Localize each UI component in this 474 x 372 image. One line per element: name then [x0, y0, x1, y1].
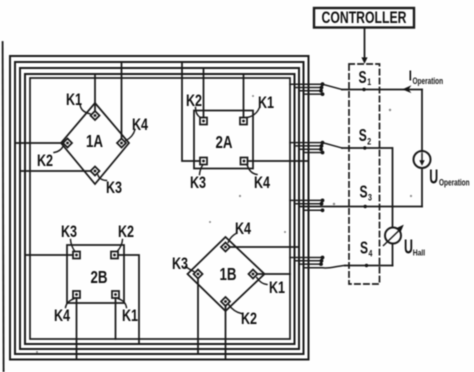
- coil turn W4: [25, 74, 295, 344]
- svg-text:CONTROLLER: CONTROLLER: [322, 9, 407, 27]
- wire 2A K4 to right coil: [248, 160, 309, 162]
- sensor 1B terminal K3: [194, 270, 203, 279]
- I_Operation arrowhead: [402, 85, 411, 93]
- svg-text:U: U: [429, 165, 438, 188]
- sensor 2B terminal K1: [112, 291, 119, 298]
- wire 1B K3 to bottom coil: [197, 279, 199, 355]
- svg-text:K4: K4: [235, 219, 252, 238]
- wire S2 row down to voltmeter U_Hall: [392, 148, 394, 228]
- voltmeter U_Hall: [385, 228, 401, 244]
- switch S3 contact dots: [320, 199, 325, 213]
- svg-text:4: 4: [369, 249, 373, 259]
- wire 1A K1 to top coil: [94, 74, 96, 111]
- sensor 1A terminal K1: [91, 111, 100, 120]
- svg-text:K3: K3: [172, 254, 188, 273]
- sensor 2B terminal K3: [73, 252, 80, 259]
- wire 2B K1 to bottom coil: [115, 298, 117, 339]
- wire 2A K3 left then up to top coil: [182, 62, 200, 161]
- switch S2 contact taps: [290, 142, 322, 144]
- label leader 2A K3: [200, 165, 203, 174]
- sensor 2B body: [67, 245, 124, 303]
- svg-text:K3: K3: [106, 178, 122, 197]
- switch S4 arm: [323, 266, 346, 269]
- coil turn W1 (outer rectangle): [10, 56, 309, 360]
- wire 1A K4 to top coil: [121, 62, 123, 139]
- wire S3 row to right node: [300, 206, 423, 208]
- svg-text:2: 2: [367, 137, 371, 147]
- svg-text:K1: K1: [122, 306, 138, 325]
- sensor 2A terminal K2: [200, 118, 207, 125]
- label leader 2A K1: [247, 109, 259, 118]
- label leader 1B K1: [257, 278, 267, 285]
- switch bank dashed enclosure: [349, 64, 380, 284]
- label leader 1A K4: [126, 130, 135, 141]
- svg-text:Operation: Operation: [413, 76, 444, 86]
- scan specks: [36, 95, 412, 353]
- wire 2B K2 right then down to bottom coil: [118, 255, 139, 344]
- label leader 1B K4: [228, 234, 236, 243]
- label leader 2B K3: [71, 240, 75, 252]
- sensor 1A terminal K4: [117, 139, 126, 148]
- svg-text:K2: K2: [118, 222, 134, 241]
- sensor 1A terminal K3: [91, 167, 100, 176]
- sensor 1B terminal K1: [249, 270, 258, 279]
- label leader 1B K3: [186, 267, 194, 272]
- voltmeter arrow (diagonal): [384, 230, 400, 246]
- svg-text:K3: K3: [190, 173, 206, 192]
- wire source to S3 row: [421, 168, 423, 207]
- switch S2 contact dots: [319, 141, 324, 155]
- svg-text:1: 1: [367, 77, 371, 87]
- svg-text:3: 3: [368, 193, 372, 203]
- label leader 2B K2: [117, 240, 122, 252]
- switch S3 contact taps: [290, 199, 322, 201]
- svg-text:2B: 2B: [90, 268, 107, 287]
- label leader 1A K2: [54, 146, 63, 153]
- source arrow (down): [421, 154, 423, 163]
- wire 1B K4 to right coil: [230, 246, 299, 248]
- label leader 1A K3: [98, 175, 107, 181]
- controller to switch-bank arrow: [364, 28, 366, 59]
- label leader 2B K1: [118, 299, 126, 308]
- svg-text:S: S: [360, 182, 368, 202]
- wire 2A K1 to top coil: [243, 74, 245, 118]
- scan edge artifact line: [3, 42, 4, 372]
- coil turn W2: [15, 62, 304, 354]
- svg-text:Operation: Operation: [439, 177, 470, 187]
- sensor 1B terminal K2: [221, 297, 230, 306]
- switch S1 contact taps: [290, 83, 322, 85]
- sensor 2A terminal K1: [240, 118, 247, 125]
- switch S4 contact taps: [290, 257, 322, 259]
- controller box: [314, 8, 414, 28]
- switch S1 arm: [323, 84, 343, 89]
- svg-text:K2: K2: [37, 151, 53, 170]
- switch pivot dots: [362, 88, 368, 267]
- svg-text:2A: 2A: [215, 133, 233, 152]
- svg-text:1A: 1A: [86, 132, 104, 151]
- label leader 2A K2: [196, 108, 201, 118]
- wire S2 row to hall branch: [342, 147, 392, 149]
- svg-text:K4: K4: [132, 115, 149, 134]
- sensor 1B terminal K4: [221, 243, 230, 252]
- svg-text:K3: K3: [61, 222, 77, 241]
- wire 1B K1 to right coil: [258, 273, 291, 275]
- svg-text:S: S: [359, 68, 367, 88]
- wire voltmeter to S4 row: [392, 244, 394, 266]
- switch S2 arm: [323, 143, 343, 148]
- label leader 1A K1: [80, 105, 90, 114]
- wire S1 row to right node: [342, 89, 422, 91]
- svg-text:I: I: [409, 67, 412, 84]
- inner frame: [30, 78, 290, 339]
- sensor 2B terminal K2: [111, 252, 118, 259]
- sensor 2A body: [194, 111, 253, 169]
- svg-text:K2: K2: [186, 91, 202, 110]
- svg-text:1B: 1B: [219, 265, 236, 284]
- wire 1B K2 to bottom coil: [225, 306, 227, 360]
- wire 2B K3 to left coil: [25, 254, 73, 256]
- switch S1 contact dots: [319, 82, 324, 96]
- sensor 2A terminal K3: [200, 158, 207, 165]
- wire 2A K2 to top coil: [203, 68, 205, 118]
- wire 1A K2 to left coil: [15, 142, 63, 144]
- label leader 2B K4: [66, 299, 75, 308]
- svg-text:S: S: [360, 238, 368, 258]
- sensor 1B body: [188, 237, 265, 311]
- wire S4 row to hall branch: [345, 265, 393, 267]
- svg-text:K1: K1: [269, 278, 285, 297]
- label leader 2A K4: [247, 166, 257, 175]
- svg-text:K1: K1: [66, 90, 82, 109]
- sensor 2A terminal K4: [241, 158, 248, 165]
- wire S1 node down to source U_Operation: [421, 90, 423, 152]
- switch S4 contact dots: [319, 256, 324, 266]
- current source U_Operation: [414, 151, 431, 168]
- sensor 1A terminal K2: [63, 139, 72, 148]
- svg-text:U: U: [404, 235, 413, 258]
- coil turn W3: [20, 68, 299, 349]
- sensor 2B terminal K4: [73, 291, 80, 298]
- wire 2B K4 to bottom coil: [76, 298, 78, 360]
- svg-text:K4: K4: [254, 173, 271, 192]
- wire 1A K3 to left coil: [20, 170, 91, 172]
- svg-text:K4: K4: [54, 306, 71, 325]
- sensor 1A body: [61, 103, 129, 184]
- svg-text:Hall: Hall: [413, 248, 425, 258]
- label leader 1B K2: [229, 305, 242, 314]
- svg-text:K2: K2: [241, 309, 257, 328]
- svg-text:S: S: [359, 126, 367, 146]
- svg-text:K1: K1: [258, 93, 274, 112]
